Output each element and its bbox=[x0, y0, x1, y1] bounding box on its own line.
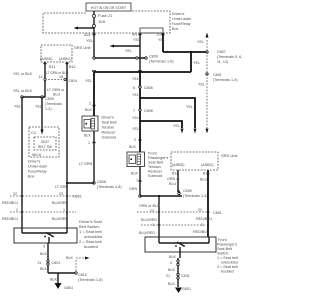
wire YEL feed horizontal bbox=[92, 51, 207, 72]
connector C831 (in-line) bbox=[177, 273, 190, 279]
connector C604 bbox=[39, 75, 78, 83]
dashed wire to SRS arrows bbox=[198, 74, 209, 134]
svg-text:C810: C810 bbox=[78, 273, 87, 277]
svg-text:(Terminals: (Terminals bbox=[45, 102, 62, 106]
svg-text:(ASBD): (ASBD) bbox=[172, 163, 185, 167]
connector row C801 (right) bbox=[137, 208, 222, 215]
svg-text:Seat Belt: Seat Belt bbox=[102, 121, 117, 125]
svg-text:(ASBC): (ASBC) bbox=[201, 163, 214, 167]
svg-text:2: 2 bbox=[16, 208, 18, 212]
svg-text:C807: C807 bbox=[217, 50, 226, 54]
wire YEL to MICU bbox=[35, 97, 44, 135]
svg-text:G801: G801 bbox=[64, 286, 73, 290]
svg-text:Driver's: Driver's bbox=[172, 12, 185, 16]
svg-text:Under-dash: Under-dash bbox=[172, 17, 191, 21]
svg-text:(Terminals 1-4): (Terminals 1-4) bbox=[213, 78, 238, 82]
connector row (left, lower) bbox=[10, 208, 76, 213]
svg-text:(Terminals 4-8): (Terminals 4-8) bbox=[97, 185, 122, 189]
svg-text:C801: C801 bbox=[213, 211, 222, 215]
wire to grounds bbox=[48, 273, 76, 283]
off-page arrow (inside fuse box) bbox=[74, 27, 95, 30]
connector C806 pin 7 bbox=[139, 109, 153, 113]
svg-text:RED/BLU: RED/BLU bbox=[2, 201, 18, 205]
svg-text:Tension: Tension bbox=[102, 126, 115, 130]
svg-text:BLK: BLK bbox=[168, 282, 176, 286]
label passenger's switch legend bbox=[217, 238, 238, 274]
fuse F21 (Fuse 21 10A) bbox=[93, 11, 114, 33]
svg-text:23: 23 bbox=[59, 192, 63, 196]
svg-text:YEL: YEL bbox=[125, 49, 132, 53]
wire BLK driver's switch ground bbox=[40, 243, 48, 273]
svg-text:Tension: Tension bbox=[148, 165, 161, 169]
wire YEL branch to SRS (1) bbox=[140, 98, 197, 134]
svg-text:Seat Belt: Seat Belt bbox=[217, 247, 232, 251]
svg-text:7: 7 bbox=[133, 109, 135, 113]
svg-text:YEL: YEL bbox=[197, 40, 204, 44]
svg-text:(ASBC): (ASBC) bbox=[59, 57, 72, 61]
svg-text:11, 12): 11, 12) bbox=[217, 60, 228, 64]
svg-text:C690: C690 bbox=[183, 189, 192, 193]
svg-text:G601: G601 bbox=[182, 287, 191, 291]
off-page arrow BLK bbox=[66, 256, 90, 271]
internal bus bar bbox=[140, 28, 163, 33]
svg-text:SEAT: SEAT bbox=[41, 140, 49, 144]
svg-text:Passenger's: Passenger's bbox=[148, 156, 168, 160]
svg-text:B11: B11 bbox=[49, 65, 55, 69]
connector C809 (Terminals 1-2) bbox=[21, 96, 62, 111]
svg-text:LT GRN: LT GRN bbox=[79, 162, 93, 166]
svg-text:YEL: YEL bbox=[173, 124, 180, 128]
svg-text:1: 1 bbox=[136, 179, 138, 183]
wire to passenger switch bbox=[139, 196, 160, 237]
svg-text:BLK: BLK bbox=[50, 278, 58, 282]
svg-text:C604: C604 bbox=[69, 79, 78, 83]
svg-text:2: 2 bbox=[201, 223, 203, 227]
svg-text:21: 21 bbox=[166, 274, 170, 278]
svg-text:BLK: BLK bbox=[66, 256, 74, 260]
svg-text:C809: C809 bbox=[45, 97, 54, 101]
svg-text:15: 15 bbox=[59, 75, 63, 79]
connector C807 bbox=[206, 50, 242, 64]
svg-text:C806: C806 bbox=[144, 109, 153, 113]
label Driver's Under-dash Fuse/Relay Box (lower) bbox=[28, 160, 47, 179]
svg-text:RED/BLU: RED/BLU bbox=[2, 217, 18, 221]
svg-text:1-2): 1-2) bbox=[45, 107, 52, 111]
svg-text:LT GRN or: LT GRN or bbox=[47, 88, 65, 92]
svg-text:YEL: YEL bbox=[132, 93, 139, 97]
svg-text:Box: Box bbox=[172, 27, 179, 31]
svg-text:(Terminals 1-6): (Terminals 1-6) bbox=[149, 60, 174, 64]
connector C801 (in-line) bbox=[38, 260, 61, 265]
label Driver's Under-dash Fuse/Relay Box bbox=[172, 12, 191, 31]
svg-text:1 = Seat belt: 1 = Seat belt bbox=[217, 256, 238, 260]
svg-text:YEL: YEL bbox=[186, 105, 193, 109]
svg-text:RED/BLU: RED/BLU bbox=[196, 217, 212, 221]
wire GRN or BLU from SRS bbox=[167, 170, 180, 193]
svg-text:(Terminals 5, 6,: (Terminals 5, 6, bbox=[217, 55, 242, 59]
svg-text:RED/BLU: RED/BLU bbox=[193, 230, 209, 234]
wire LT GRN to driver switch bbox=[55, 182, 69, 228]
SRS unit box (lower) bbox=[171, 152, 238, 170]
svg-text:C801: C801 bbox=[213, 73, 222, 77]
svg-text:C4: C4 bbox=[31, 131, 36, 135]
wire M3 YEL bbox=[133, 33, 142, 72]
svg-text:Box: Box bbox=[28, 175, 35, 179]
svg-text:C806: C806 bbox=[144, 86, 153, 90]
wire passenger solenoid return GRN bbox=[129, 167, 142, 197]
wire LT GRN or BLU (B12) bbox=[46, 62, 69, 183]
svg-text:YEL: YEL bbox=[132, 77, 139, 81]
solenoid L2 passenger tension reducer bbox=[127, 152, 145, 167]
wire YEL to switch bbox=[14, 97, 22, 228]
switch S1 driver's seat belt switch bbox=[14, 228, 77, 243]
wire J12 YEL bbox=[158, 33, 165, 52]
wire BLK passenger switch ground bbox=[166, 252, 180, 287]
svg-text:Under-dash: Under-dash bbox=[28, 165, 47, 169]
svg-text:B12: B12 bbox=[69, 65, 76, 69]
svg-text:C831: C831 bbox=[181, 274, 190, 278]
svg-text:J12: J12 bbox=[156, 33, 162, 37]
svg-text:buckled: buckled bbox=[221, 270, 234, 274]
svg-text:LT GRN: LT GRN bbox=[55, 185, 69, 189]
svg-text:BLU/RED: BLU/RED bbox=[52, 217, 68, 221]
connector C801 (Terminals 1-4) bbox=[206, 52, 238, 82]
svg-text:YEL: YEL bbox=[132, 116, 139, 120]
svg-text:BLK: BLK bbox=[40, 267, 48, 271]
svg-text:BELT SW: BELT SW bbox=[38, 145, 52, 149]
svg-text:YEL or BLK: YEL or BLK bbox=[13, 72, 33, 76]
svg-text:BLU: BLU bbox=[53, 93, 61, 97]
svg-text:SRS Unit: SRS Unit bbox=[221, 153, 238, 158]
svg-text:MICU: MICU bbox=[32, 153, 42, 157]
power label HOT IN ON OR START bbox=[86, 3, 131, 11]
switch S2 passenger's seat belt switch bbox=[145, 237, 216, 252]
connector C809 (Terminals 1-6) bbox=[93, 55, 174, 64]
MICU box bbox=[29, 127, 59, 157]
svg-text:23: 23 bbox=[150, 209, 154, 213]
svg-text:1: 1 bbox=[152, 223, 154, 227]
svg-text:Front: Front bbox=[148, 152, 157, 156]
svg-text:BLU/RED: BLU/RED bbox=[52, 201, 68, 205]
svg-text:C801: C801 bbox=[73, 195, 82, 199]
svg-text:Seat Belt: Seat Belt bbox=[148, 161, 163, 165]
label driver's switch legend bbox=[79, 219, 103, 249]
svg-text:Driver's: Driver's bbox=[28, 160, 41, 164]
svg-text:3: 3 bbox=[43, 245, 45, 249]
svg-text:YEL or BLK: YEL or BLK bbox=[13, 89, 33, 93]
svg-text:BLK: BLK bbox=[169, 255, 177, 259]
svg-text:Reducer: Reducer bbox=[102, 131, 117, 135]
svg-text:GRN: GRN bbox=[129, 187, 138, 191]
svg-text:(ASBD): (ASBD) bbox=[40, 57, 53, 61]
wire BLU from SRS bbox=[200, 170, 208, 237]
wire solenoid return bbox=[79, 131, 96, 183]
svg-text:Reducer: Reducer bbox=[148, 170, 163, 174]
fuse/relay box outline bbox=[43, 11, 170, 33]
svg-text:YEL: YEL bbox=[14, 105, 21, 109]
svg-text:Passenger's: Passenger's bbox=[217, 243, 237, 247]
svg-text:2 = Seat belt: 2 = Seat belt bbox=[217, 265, 238, 269]
svg-text:BLK: BLK bbox=[40, 252, 48, 256]
svg-text:2: 2 bbox=[134, 138, 136, 142]
junction to switch bbox=[139, 195, 182, 197]
svg-text:Solenoid: Solenoid bbox=[148, 174, 162, 178]
svg-text:M3: M3 bbox=[132, 33, 137, 37]
svg-text:Fuse/Relay: Fuse/Relay bbox=[28, 170, 47, 174]
svg-text:Fuse/Relay: Fuse/Relay bbox=[172, 22, 191, 26]
svg-text:YEL: YEL bbox=[158, 38, 165, 42]
svg-text:2: 2 bbox=[89, 102, 91, 106]
solenoid L1 driver's tension reducer bbox=[82, 116, 98, 131]
svg-text:Switch:: Switch: bbox=[217, 252, 229, 256]
svg-text:YEL: YEL bbox=[35, 105, 42, 109]
svg-text:A24: A24 bbox=[84, 33, 91, 37]
svg-text:BLK: BLK bbox=[84, 134, 92, 138]
svg-text:Solenoid: Solenoid bbox=[102, 136, 116, 140]
svg-text:YEL: YEL bbox=[198, 83, 205, 87]
svg-text:(Terminals 1-3): (Terminals 1-3) bbox=[183, 194, 208, 198]
svg-text:BLK: BLK bbox=[129, 145, 137, 149]
SRS unit box (top) bbox=[40, 45, 72, 62]
svg-text:21: 21 bbox=[38, 261, 42, 265]
svg-text:YEL: YEL bbox=[132, 127, 139, 131]
svg-text:buckled: buckled bbox=[84, 244, 98, 249]
svg-text:BLK: BLK bbox=[85, 108, 93, 112]
svg-text:BLU/RED: BLU/RED bbox=[139, 231, 155, 235]
connector C690 (Terminals 1-3) bbox=[178, 189, 208, 198]
svg-text:C809: C809 bbox=[149, 55, 158, 59]
svg-text:YEL: YEL bbox=[133, 38, 140, 42]
svg-text:BLK: BLK bbox=[168, 268, 176, 272]
svg-text:6: 6 bbox=[133, 86, 135, 90]
svg-text:Driver's: Driver's bbox=[102, 116, 115, 120]
svg-text:3: 3 bbox=[170, 261, 172, 265]
label driver's solenoid bbox=[102, 116, 117, 140]
wire up-arrow to C807 bbox=[197, 33, 209, 53]
svg-text:BLK: BLK bbox=[131, 172, 139, 176]
connector C806 pin 6 bbox=[139, 86, 153, 90]
svg-text:10A: 10A bbox=[98, 19, 105, 24]
svg-text:C808: C808 bbox=[97, 180, 106, 184]
ground G601 bbox=[175, 287, 191, 293]
svg-text:BLU/RED: BLU/RED bbox=[141, 218, 157, 222]
off-page arrow left YEL bbox=[110, 45, 141, 54]
svg-text:22: 22 bbox=[13, 192, 17, 196]
svg-text:1: 1 bbox=[88, 141, 90, 145]
wire YEL from fuse to node bbox=[86, 33, 96, 58]
svg-text:YEL: YEL bbox=[86, 39, 93, 43]
svg-text:C801: C801 bbox=[52, 261, 61, 265]
connector row (right, lower) bbox=[141, 223, 209, 227]
wire YEL branch to SRS (2) bbox=[140, 121, 184, 134]
connector (in-line) bbox=[177, 260, 179, 266]
svg-text:HOT IN ON OR START: HOT IN ON OR START bbox=[91, 6, 126, 10]
connector C808 (Terminals 4-8) bbox=[67, 180, 122, 189]
svg-text:1: 1 bbox=[63, 208, 65, 212]
wire YEL or BLK (B11) bbox=[13, 62, 47, 97]
svg-text:GRN or: GRN or bbox=[167, 177, 180, 181]
svg-text:unbuckled: unbuckled bbox=[221, 261, 238, 265]
wire YEL feed driver's solenoid bbox=[85, 72, 96, 116]
svg-text:(Terminals 1-6): (Terminals 1-6) bbox=[78, 278, 103, 282]
svg-text:Front: Front bbox=[218, 238, 227, 242]
svg-text:BLU: BLU bbox=[200, 178, 208, 182]
connector row C801 (left, upper) bbox=[10, 192, 82, 199]
ground G801 bbox=[55, 283, 74, 290]
label passenger solenoid bbox=[148, 152, 168, 179]
svg-text:SRS Unit: SRS Unit bbox=[74, 45, 91, 50]
svg-text:YEL: YEL bbox=[85, 79, 92, 83]
svg-text:22: 22 bbox=[198, 208, 202, 212]
connector C810 (Terminals 1-6) bbox=[75, 272, 103, 282]
svg-text:BLU: BLU bbox=[169, 182, 177, 186]
wire YEL feed passenger solenoid bbox=[129, 72, 142, 152]
svg-text:Fuse 21: Fuse 21 bbox=[98, 13, 113, 18]
svg-text:LT GRN or BLU: LT GRN or BLU bbox=[46, 71, 69, 75]
svg-text:YEL: YEL bbox=[193, 61, 200, 65]
svg-text:GRN or BLU: GRN or BLU bbox=[139, 204, 160, 208]
svg-text:14: 14 bbox=[39, 75, 43, 79]
